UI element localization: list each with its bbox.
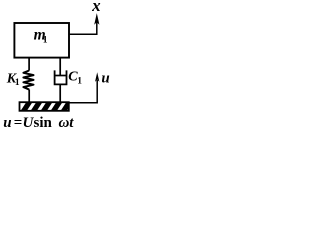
wire from box bottom to spring (28, 58, 30, 71)
svg-text:1: 1 (77, 77, 82, 87)
svg-text:x: x (91, 0, 101, 15)
wire from box to x-axis arrow (70, 22, 97, 34)
damper cylinder cup (55, 70, 67, 84)
damper piston plate (55, 75, 66, 77)
damper rod from box bottom to piston (59, 58, 61, 76)
svg-text:u: u (101, 71, 109, 87)
wire from ground bar to u arrow (69, 80, 97, 103)
mass m1 box (14, 23, 69, 58)
x-axis arrowhead (94, 13, 99, 25)
u arrowhead (95, 72, 99, 82)
svg-text:1: 1 (15, 78, 20, 88)
ground hatched bar (20, 95, 75, 115)
svg-text:1: 1 (43, 36, 48, 46)
damper rod from cup to ground bar (59, 84, 61, 102)
svg-text:u=Usinωt: u=Usinωt (3, 115, 74, 131)
wire from spring to ground bar (28, 90, 30, 103)
background (0, 0, 112, 133)
spring K1 zigzag (23, 71, 33, 90)
